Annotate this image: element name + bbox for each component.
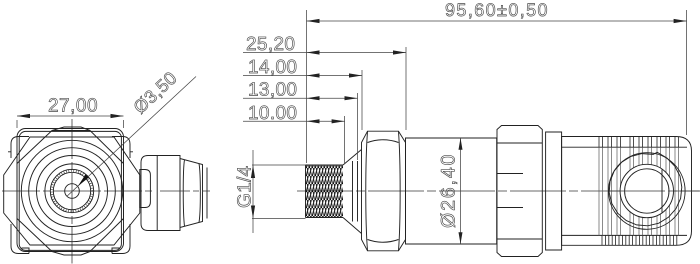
svg-text:Ø3,50: Ø3,50: [130, 68, 181, 118]
svg-text:10.00: 10.00: [248, 103, 297, 124]
connector centerline: [160, 190, 210, 192]
hex nut face lines: [366, 132, 400, 251]
svg-text:Ø26,40: Ø26,40: [438, 153, 460, 228]
side connector gland slot: [140, 170, 151, 208]
svg-text:G1/4: G1/4: [235, 165, 256, 208]
dim 27,00 arrows: [17, 114, 124, 118]
dim line 10.00: [243, 120, 345, 122]
centerline re-draw through connector: [609, 190, 700, 192]
leader d3.5: [67, 77, 196, 197]
arrows 25.20: [307, 50, 407, 54]
rear square corner bottom-right: [112, 224, 130, 254]
gland hex: [497, 126, 542, 257]
connector ring r22.2: [625, 169, 669, 213]
arrows 13.00: [307, 96, 358, 100]
connector ring r38.3: [609, 153, 686, 230]
ext line 10.00: [344, 116, 346, 163]
svg-text:13,00: 13,00: [248, 80, 297, 101]
gland chamfer lines: [497, 143, 542, 239]
svg-text:95,60±0,50: 95,60±0,50: [445, 0, 549, 20]
dim line 14.00: [243, 75, 362, 77]
ext line 25.20: [405, 47, 407, 130]
arrows G1/4: [251, 165, 255, 219]
circle r27.1: [45, 164, 99, 218]
front hex vertex chamfer top: [52, 127, 90, 131]
center hole circle d3.5: [65, 184, 80, 199]
centerline vertical (front view): [71, 119, 73, 264]
body inner lines: [562, 147, 687, 235]
ext line 95.60 left: [306, 10, 308, 163]
front hex vertex chamfer bottom: [52, 252, 90, 256]
arrows 10.00: [307, 119, 345, 123]
centerline horizontal (front view): [2, 190, 152, 192]
full-height fins: [599, 147, 679, 235]
front hex 27AF (flats left/right, truncated top/bottom vertices): [17, 131, 124, 252]
rear square corner bottom-left: [11, 224, 29, 254]
svg-text:25,20: 25,20: [246, 34, 295, 55]
circle r43.3: [29, 148, 116, 235]
circle r35.5: [37, 156, 108, 227]
arrows 14.00: [307, 73, 363, 77]
thread cone transition: [343, 150, 362, 234]
G1/4 ext lines: [252, 165, 306, 219]
collar: [546, 132, 562, 250]
washer: [353, 161, 358, 222]
hex nut chamfer arcs: [368, 140, 399, 243]
thread outline: [306, 165, 344, 218]
gland face lines: [497, 174, 523, 208]
front square flange outer: [17, 129, 124, 252]
dim line 95.60: [307, 20, 687, 22]
dim line 13.00: [243, 97, 358, 99]
dim 27,00 extension lines: [17, 120, 124, 128]
rear hex (flats top/bottom, truncated left/right vertices): [4, 137, 140, 245]
hex plug end cap: [206, 168, 208, 219]
dim 27,00 line: [17, 115, 124, 117]
body fin ribs top band: [599, 137, 679, 246]
thread body with hatch: [306, 165, 344, 218]
connector knurl dodecagon: [609, 152, 682, 226]
body fin ribs bottom band: [602, 235, 677, 245]
arrows 95.60: [307, 19, 687, 23]
hatch ticks on boss ring (lower arc): [50, 169, 94, 213]
G1/4 dim line: [252, 150, 254, 233]
leader arrow: [78, 174, 89, 186]
fin chord line: [661, 170, 663, 213]
ext line 95.60 right: [686, 10, 688, 135]
circle r18.7 (boss ring inner): [53, 172, 90, 209]
d26.40 dim line: [460, 138, 462, 244]
rear square corner top-right: [112, 137, 133, 159]
circle r50.7: [21, 140, 122, 241]
ext line 13.00: [357, 93, 359, 160]
body outline: [562, 137, 692, 246]
hex plug face arcs: [183, 160, 200, 227]
centerline horizontal (side view): [297, 190, 700, 192]
side connector rect (front view): [141, 156, 180, 231]
rear square corner top-left: [8, 137, 29, 159]
side connector hex plug: [180, 159, 203, 228]
side connector rect joint line: [156, 156, 158, 231]
connector ring r26.7: [620, 164, 673, 217]
ext line 14.00: [361, 70, 363, 130]
front square flange inner: [19, 131, 121, 250]
svg-text:27,00: 27,00: [48, 96, 98, 117]
arrows d26.40: [459, 138, 463, 244]
circle r21.7 (boss ring outer): [50, 169, 93, 212]
dim line 25.20: [243, 52, 406, 54]
svg-text:14,00: 14,00: [248, 57, 297, 78]
hex nut side view: [362, 131, 406, 251]
cylinder d26.4: [406, 138, 497, 244]
